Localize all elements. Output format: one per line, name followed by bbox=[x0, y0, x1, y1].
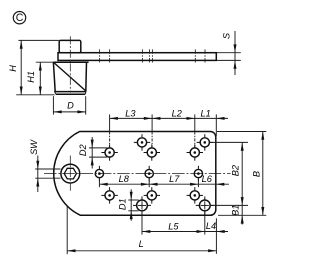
svg-text:D2: D2 bbox=[78, 144, 88, 156]
dimension L2 bbox=[152, 108, 195, 146]
hole row2 #1 bbox=[101, 144, 117, 160]
svg-text:L3: L3 bbox=[125, 108, 136, 118]
dimension L4 bbox=[205, 218, 228, 254]
hole row3 (mid) #3 bbox=[194, 166, 202, 182]
svg-text:L8: L8 bbox=[119, 174, 130, 184]
hole row3 (mid) #1 bbox=[95, 166, 103, 182]
hole row5 #1 bbox=[133, 196, 151, 214]
svg-text:L4: L4 bbox=[206, 221, 216, 231]
svg-text:H1: H1 bbox=[26, 71, 36, 83]
hole row2 #3 bbox=[187, 144, 203, 160]
dimension B2 bbox=[210, 142, 248, 205]
dimension H bbox=[8, 40, 59, 94]
svg-text:B: B bbox=[251, 171, 261, 177]
hole row1 #1 bbox=[134, 134, 150, 150]
dimension SW bbox=[29, 139, 61, 192]
dimension D1 bbox=[118, 189, 139, 221]
dimension L8 bbox=[99, 174, 149, 187]
dimension B1 bbox=[230, 205, 243, 225]
dimension S bbox=[217, 31, 241, 75]
svg-text:H: H bbox=[8, 65, 18, 72]
dimension L7 bbox=[149, 174, 198, 187]
screw centerline (side view) bbox=[69, 36, 71, 92]
view label C (circled) bbox=[13, 12, 25, 25]
svg-text:L: L bbox=[139, 239, 144, 249]
hole row4 #1 bbox=[101, 187, 117, 203]
clamp arm (side view) bbox=[58, 53, 216, 61]
svg-text:B2: B2 bbox=[230, 165, 240, 176]
dimension D bbox=[53, 96, 85, 114]
dimension L3 bbox=[110, 108, 153, 146]
clamp block with diagonal (side view) bbox=[53, 62, 88, 94]
svg-text:SW: SW bbox=[29, 139, 39, 155]
svg-text:L7: L7 bbox=[169, 174, 180, 184]
hole position tick marks on arm bbox=[100, 49, 205, 63]
dimension L1 bbox=[195, 108, 228, 136]
boss with hex socket bbox=[61, 164, 80, 183]
boss vertical centerline bbox=[69, 156, 71, 192]
dimension H1 bbox=[26, 62, 53, 95]
dimension D2 bbox=[78, 137, 107, 169]
main horizontal centerline bbox=[44, 173, 231, 175]
clamp head (side view) bbox=[59, 40, 81, 52]
dimension L5 bbox=[142, 211, 205, 234]
hole row2 #2 bbox=[144, 144, 160, 160]
hole row4 #2 bbox=[144, 187, 160, 203]
svg-text:S: S bbox=[222, 32, 232, 39]
svg-text:L2: L2 bbox=[172, 108, 182, 118]
hole row1 #2 bbox=[197, 134, 213, 150]
svg-text:B1: B1 bbox=[230, 205, 240, 216]
svg-text:D1: D1 bbox=[118, 198, 128, 210]
dimension B bbox=[217, 132, 266, 216]
svg-text:L6: L6 bbox=[202, 174, 213, 184]
dimension L6 bbox=[198, 174, 229, 186]
svg-text:C: C bbox=[16, 12, 24, 24]
dimension L bbox=[67, 206, 216, 254]
base plate outline (plan view) bbox=[54, 132, 216, 216]
hole row4 #3 bbox=[187, 187, 203, 203]
hole row5 #2 bbox=[196, 196, 214, 214]
svg-text:L1: L1 bbox=[200, 108, 210, 118]
svg-text:L5: L5 bbox=[168, 221, 179, 231]
svg-text:D: D bbox=[67, 100, 74, 110]
hole row3 (mid) #2 bbox=[145, 166, 153, 182]
